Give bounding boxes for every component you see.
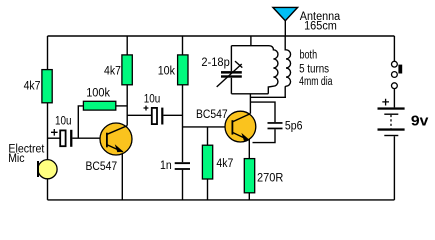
svg-text:165cm: 165cm [304, 21, 337, 33]
svg-text:Mic: Mic [8, 153, 25, 165]
svg-text:270R: 270R [257, 173, 283, 185]
svg-text:10k: 10k [158, 65, 176, 77]
svg-text:10u: 10u [55, 115, 72, 127]
svg-text:4k7: 4k7 [216, 158, 233, 170]
svg-text:4k7: 4k7 [104, 65, 121, 77]
svg-text:5p6: 5p6 [285, 121, 303, 133]
svg-text:BC547: BC547 [196, 109, 228, 121]
svg-text:1n: 1n [160, 160, 172, 172]
svg-text:BC547: BC547 [86, 161, 118, 173]
svg-text:4k7: 4k7 [24, 81, 41, 93]
svg-text:5 turns: 5 turns [299, 63, 329, 75]
svg-text:100k: 100k [86, 87, 110, 99]
svg-text:4mm dia: 4mm dia [299, 76, 333, 88]
svg-text:2-18p: 2-18p [201, 57, 229, 69]
svg-text:9v: 9v [411, 112, 429, 129]
svg-text:both: both [300, 50, 318, 62]
svg-text:10u: 10u [144, 94, 161, 106]
